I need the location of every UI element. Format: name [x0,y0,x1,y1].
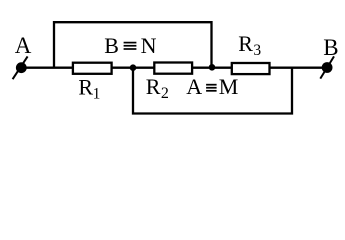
svg-text:A: A [15,33,32,58]
svg-text:B: B [323,35,338,60]
svg-text:3: 3 [253,42,261,59]
svg-text:N: N [141,33,157,58]
svg-text:A: A [186,74,202,99]
svg-text:R: R [146,74,161,99]
svg-text:2: 2 [161,85,169,102]
svg-text:1: 1 [93,85,101,102]
svg-text:M: M [219,74,239,99]
svg-text:R: R [238,31,253,56]
svg-text:B: B [104,33,119,58]
svg-text:R: R [78,74,93,99]
